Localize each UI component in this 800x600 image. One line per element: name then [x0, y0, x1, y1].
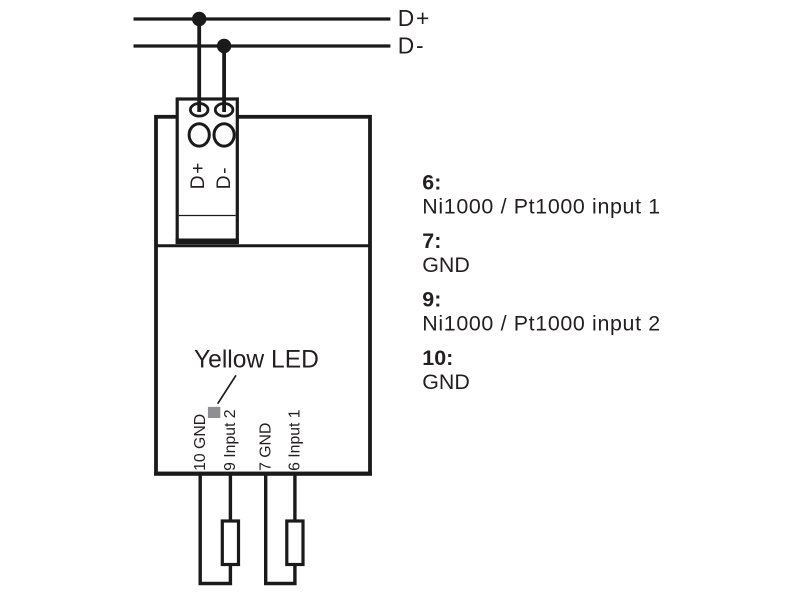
terminal opening large 2 [214, 124, 234, 146]
svg-text:D+: D+ [398, 5, 431, 31]
svg-text:6:: 6: [422, 171, 441, 195]
wire from D- to terminal 2 [222, 46, 226, 112]
svg-text:10 GND: 10 GND [192, 414, 209, 471]
terminal block inner line [179, 215, 236, 217]
svg-text:9:: 9: [422, 288, 441, 312]
node junction dot D- [217, 39, 231, 53]
wire stub into terminal 2 [222, 99, 226, 112]
wire pin 6 down to resistor [293, 473, 296, 521]
svg-text:GND: GND [422, 370, 470, 394]
terminal block bottom bar [176, 239, 239, 244]
wire pin 10 down and across [200, 473, 230, 584]
svg-text:D+: D+ [188, 161, 209, 189]
terminal opening large 1 [189, 124, 209, 146]
svg-text:7:: 7: [422, 229, 441, 253]
resistor sensor 1 (Ni1000/Pt1000) [222, 521, 238, 565]
module main box [156, 117, 370, 474]
wire stub into terminal 1 [197, 99, 201, 112]
svg-text:6 Input 1: 6 Input 1 [287, 409, 304, 471]
module bottom edge thick [154, 472, 372, 476]
wire D+ bus line [134, 17, 391, 20]
leader line to LED [218, 375, 236, 403]
yellow LED square [208, 407, 220, 418]
wire pin 9 down to resistor [229, 473, 232, 521]
svg-text:D-: D- [398, 33, 426, 59]
wire pin 7 down and across [266, 473, 295, 584]
wire D- bus line [134, 44, 391, 47]
svg-text:Yellow LED: Yellow LED [194, 347, 319, 374]
terminal block [177, 99, 237, 243]
svg-text:9 Input 2: 9 Input 2 [222, 409, 239, 470]
node junction dot D+ [192, 12, 206, 26]
module divider line [156, 244, 370, 247]
terminal screw hole small 2 [215, 104, 233, 117]
svg-text:Ni1000 / Pt1000 input 1: Ni1000 / Pt1000 input 1 [422, 195, 661, 219]
svg-text:7 GND: 7 GND [257, 423, 274, 471]
svg-text:D-: D- [214, 166, 235, 190]
wire from D+ to terminal 1 [197, 19, 201, 112]
resistor sensor 2 (Ni1000/Pt1000) [287, 521, 303, 565]
terminal screw hole small 1 [190, 104, 208, 117]
svg-text:10:: 10: [422, 346, 453, 370]
svg-text:GND: GND [422, 253, 470, 277]
svg-text:Ni1000 / Pt1000 input 2: Ni1000 / Pt1000 input 2 [422, 312, 661, 336]
